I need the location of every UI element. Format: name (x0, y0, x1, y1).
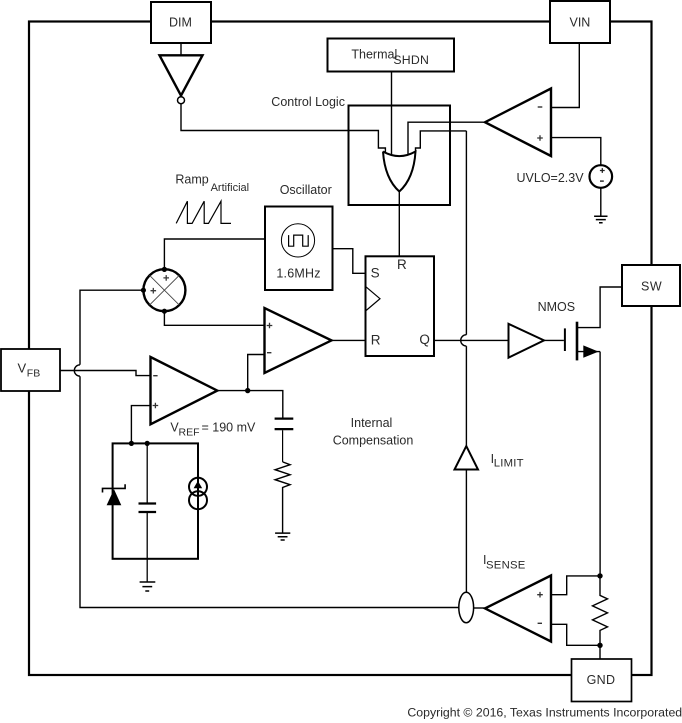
wire: cap to resistor (282, 430, 284, 462)
svg-text:Ramp: Ramp (175, 173, 208, 187)
wire: Q output to gate driver (434, 339, 509, 341)
node: resistor top (597, 573, 602, 578)
wire: ISENSE minus input (551, 624, 600, 645)
svg-text:SENSE: SENSE (486, 559, 526, 571)
ground (UVLO source) (594, 216, 607, 223)
wire: buffer to gate (544, 339, 564, 341)
wire: NMOS source down to sense resistor (599, 352, 601, 576)
gate driver buffer U8 (509, 324, 545, 358)
ground (compensation) (275, 533, 290, 540)
wire: OR output to latch R (398, 192, 400, 257)
svg-text:VIN: VIN (570, 16, 591, 30)
ground (reference) (140, 582, 156, 591)
wire: NMOS source (577, 351, 600, 353)
ramp sawtooth waveform (176, 201, 231, 223)
OR gate U3 (383, 152, 416, 192)
wire: NMOS drain to SW (577, 287, 622, 328)
node: ref box top left (129, 441, 134, 446)
node: multiplier top (162, 267, 167, 272)
sense resistor R1 (593, 576, 608, 645)
svg-text:LIMIT: LIMIT (494, 457, 524, 469)
error amplifier U5 (151, 357, 218, 424)
wire: ISENSE plus input (551, 576, 600, 595)
svg-text:UVLO=2.3V: UVLO=2.3V (517, 171, 585, 185)
node: multiplier left (141, 288, 146, 293)
compensation capacitor C1 (275, 419, 294, 430)
square wave symbol (289, 235, 309, 246)
wire: ellipse to ISENSE comparator output (474, 607, 485, 609)
NMOS source arrow (583, 345, 598, 357)
svg-text:S: S (371, 265, 380, 280)
svg-text:FB: FB (27, 367, 40, 379)
svg-text:Oscillator: Oscillator (280, 183, 332, 197)
PWM comparator U6 (265, 308, 332, 373)
node: multiplier bottom (162, 309, 167, 314)
wire: DIM to inverter (180, 43, 182, 55)
DIM box (151, 2, 211, 43)
wire: resistor bottom to GND box (599, 645, 601, 659)
svg-text:Compensation: Compensation (333, 434, 414, 448)
wire: Thermal SHDN to OR gate input (391, 72, 393, 156)
voltage source UVLO=2.3V (590, 165, 613, 188)
current source I1 (189, 478, 207, 496)
thermal shutdown box (328, 39, 455, 72)
inverter U2 (DIM input) (160, 55, 203, 95)
svg-text:REF: REF (179, 426, 200, 438)
wire: error amp output to compensation (217, 391, 282, 418)
node: error amp output (245, 388, 250, 393)
SR latch U7 (366, 256, 435, 356)
ISENSE comparator U9 (485, 576, 551, 642)
svg-text:Artificial: Artificial (211, 182, 250, 194)
wire: UVLO comparator output to OR gate input (408, 122, 485, 155)
inverter bubble (178, 97, 185, 104)
wire: multiplier bottom to PWM comparator plus (164, 311, 264, 325)
wire: oscillator output to latch S input (333, 249, 366, 274)
svg-text:R: R (371, 332, 381, 347)
svg-text:SW: SW (641, 280, 662, 294)
wire: error amp output to PWM minus (248, 355, 265, 391)
svg-text:Internal: Internal (351, 416, 393, 430)
wire: multiplier top to oscillator (164, 239, 265, 269)
svg-text:NMOS: NMOS (538, 300, 576, 314)
wire: error amp plus to reference (131, 406, 150, 444)
svg-text:DIM: DIM (169, 16, 192, 30)
svg-text:R: R (397, 257, 407, 272)
svg-text:Q: Q (419, 332, 430, 347)
svg-text:= 190 mV: = 190 mV (202, 421, 257, 435)
wire: inverter output to OR gate left input (181, 104, 385, 153)
compensation resistor R2 (275, 462, 290, 533)
wire: PWM comparator output to latch R (332, 339, 366, 341)
wire: comparator plus to UVLO source (551, 138, 601, 166)
svg-text:Copyright © 2016, Texas Instru: Copyright © 2016, Texas Instruments Inco… (407, 706, 682, 720)
SW box (622, 265, 680, 306)
reference capacitor C2 (146, 443, 148, 502)
node: ref box top mid (145, 441, 150, 446)
NMOS Q1 channel bar (576, 322, 579, 361)
node: resistor bottom (597, 643, 602, 648)
ellipse crossing (sense node) (459, 592, 474, 622)
svg-text:1.6MHz: 1.6MHz (276, 267, 320, 281)
wire: feedback line to multiplier left (with hop) (74, 290, 459, 607)
wire: ILIMIT line to OR gate input (416, 131, 467, 152)
svg-text:Control Logic: Control Logic (271, 95, 345, 109)
oscillator circle symbol (281, 224, 314, 257)
multiplier (ramp x feedback) (143, 269, 185, 311)
control logic box (349, 106, 451, 206)
wire: source to ground (600, 188, 602, 217)
reference block box (113, 443, 198, 558)
VFB box (1, 349, 60, 391)
VIN box (550, 1, 610, 43)
svg-text:GND: GND (587, 673, 616, 687)
zener diode D1 (103, 484, 126, 492)
wire: VIN to comparator minus (551, 43, 579, 108)
GND box (572, 659, 632, 702)
wire: ILIMIT vertical line with hop over Q (461, 131, 467, 592)
wire: VFB to error amp minus (60, 371, 151, 376)
latch clock mark (366, 286, 381, 311)
NMOS Q1 gate bar (564, 328, 566, 351)
ILIMIT comparator (triangle up) (455, 446, 479, 469)
svg-text:SHDN: SHDN (393, 53, 429, 67)
oscillator box (265, 207, 333, 291)
svg-text:V: V (18, 361, 27, 376)
UVLO comparator U4 (485, 89, 551, 157)
svg-text:Thermal: Thermal (351, 47, 397, 61)
